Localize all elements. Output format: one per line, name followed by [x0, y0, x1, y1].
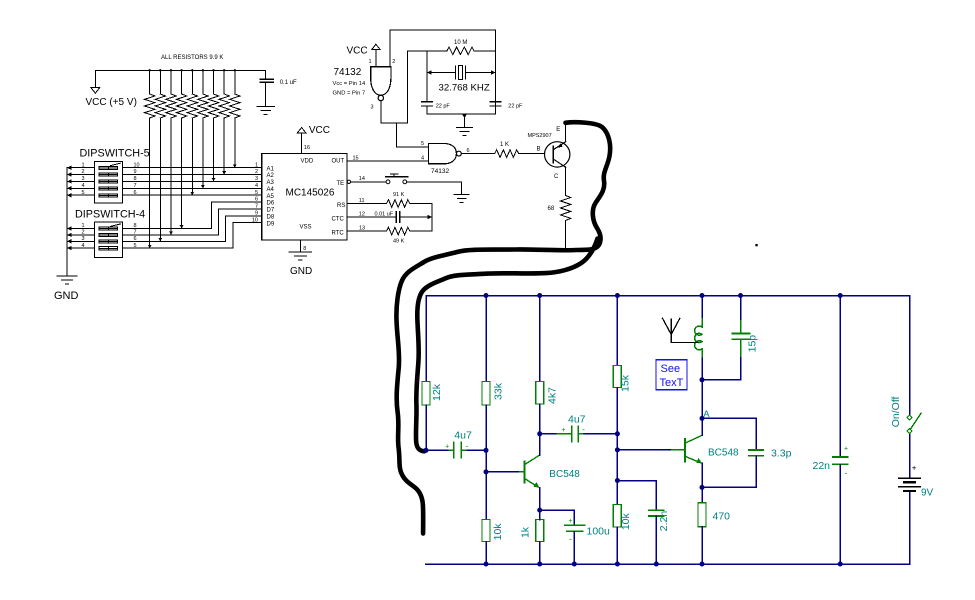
- wire DIP4 pin 6 to MC145026 D8: [122, 216, 261, 242]
- capacitor 2.2n: [617, 481, 656, 510]
- junction on data row for R9: [233, 164, 237, 167]
- svg-text:1: 1: [368, 59, 371, 65]
- wire RF V+ top rail: [426, 295, 910, 297]
- svg-text:3: 3: [81, 236, 84, 242]
- svg-text:9: 9: [255, 211, 258, 217]
- op-amp gate U2a 74132 NAND (oscillator): [371, 67, 391, 95]
- svg-text:470: 470: [713, 510, 731, 522]
- ground GND at MC145026 VSS pin 8: [299, 240, 301, 252]
- svg-text:4: 4: [81, 183, 84, 189]
- wire TE button to ground: [407, 182, 462, 195]
- wire gate1 pin2 feedback loop top: [390, 30, 496, 114]
- capacitor 4u7 interstage: [540, 433, 557, 435]
- ground under 0.1 uF: [257, 105, 274, 107]
- wire gate1 output to gate2 input 5: [381, 101, 408, 123]
- wire Q2 emitter: [701, 463, 703, 487]
- svg-text:DIPSWITCH-4: DIPSWITCH-4: [75, 209, 145, 221]
- svg-text:1k: 1k: [520, 526, 532, 538]
- junction on data row for R5: [190, 192, 194, 195]
- svg-text:10 M: 10 M: [454, 40, 467, 46]
- capacitor 22 pF left: [426, 51, 428, 102]
- svg-text:22 pF: 22 pF: [508, 103, 523, 109]
- svg-text:4k7: 4k7: [546, 387, 558, 404]
- wire oscillator node down to gates: [406, 51, 408, 123]
- svg-text:VCC (+5 V): VCC (+5 V): [86, 97, 137, 108]
- svg-text:5: 5: [255, 190, 258, 196]
- svg-text:RS: RS: [337, 203, 345, 209]
- wire RF right branch (battery): [909, 296, 911, 417]
- wire Q2 base: [617, 449, 671, 451]
- wire Q2 collector to node A: [701, 418, 703, 435]
- svg-text:TE: TE: [337, 181, 345, 187]
- svg-text:0.1 uF: 0.1 uF: [280, 80, 297, 86]
- wire DIP5 pin 3 to bus: [67, 180, 95, 182]
- capacitor 100u: [540, 510, 575, 524]
- svg-text:22 pF: 22 pF: [436, 103, 451, 109]
- wire DIP4 pin 4 to bus: [67, 247, 95, 249]
- svg-text:8: 8: [134, 176, 137, 182]
- node RF input junction: [424, 448, 429, 453]
- svg-text:2: 2: [81, 230, 84, 236]
- svg-text:32.768 KHZ: 32.768 KHZ: [439, 82, 490, 93]
- svg-text:3: 3: [81, 176, 84, 182]
- svg-text:GND = Pin 7: GND = Pin 7: [333, 91, 366, 97]
- svg-text:A1: A1: [267, 166, 275, 172]
- ground at crystal: [457, 126, 473, 128]
- svg-text:+: +: [561, 427, 565, 434]
- wire DIP5 pin 7 row A4 to MC145026: [122, 187, 261, 189]
- resistor R9 pull-up (9.9 K): [234, 70, 236, 94]
- svg-text:4: 4: [421, 155, 424, 161]
- svg-text:ALL RESISTORS 9.9 K: ALL RESISTORS 9.9 K: [161, 55, 223, 61]
- switch On/Off: [907, 415, 912, 420]
- capacitor 15p tank: [740, 296, 742, 321]
- svg-text:4u7: 4u7: [454, 429, 472, 441]
- svg-text:Vcc = Pin 14: Vcc = Pin 14: [333, 81, 366, 87]
- svg-text:4: 4: [81, 243, 84, 249]
- svg-text:D6: D6: [267, 201, 275, 207]
- svg-text:1: 1: [81, 223, 84, 229]
- svg-text:A3: A3: [267, 180, 275, 186]
- wire DIP5 pin 1 to bus: [67, 167, 95, 169]
- svg-text:22n: 22n: [813, 460, 831, 472]
- svg-text:12: 12: [359, 211, 365, 217]
- resistor 10k (second stage): [613, 505, 621, 528]
- svg-text:-: -: [582, 425, 585, 434]
- op-amp gate U2b 74132 NAND (buffer): [429, 144, 457, 164]
- svg-text:BC548: BC548: [549, 469, 580, 480]
- svg-text:TexT: TexT: [660, 377, 684, 389]
- svg-text:D8: D8: [267, 214, 275, 220]
- svg-text:91 K: 91 K: [393, 192, 405, 198]
- svg-text:100u: 100u: [587, 525, 611, 537]
- junction on data row for R3: [169, 232, 173, 235]
- svg-text:5: 5: [134, 243, 137, 249]
- junction on data row for R4: [180, 225, 184, 228]
- svg-text:3.3p: 3.3p: [771, 447, 792, 459]
- svg-text:2: 2: [81, 169, 84, 175]
- DIPSWITCH-5 element row 5: [99, 194, 117, 197]
- wire VCC supply rail: [95, 69, 265, 71]
- wire hand-drawn link inner sweep to RF input: [416, 239, 598, 452]
- junction on data row for R7: [212, 178, 216, 181]
- svg-text:3: 3: [255, 176, 258, 182]
- svg-text:2: 2: [255, 169, 258, 175]
- svg-text:33k: 33k: [493, 382, 505, 400]
- capacitor 22n: [839, 296, 841, 457]
- wire emitter up: [565, 123, 567, 142]
- svg-text:10k: 10k: [492, 523, 504, 541]
- svg-text:1 K: 1 K: [500, 142, 509, 148]
- wire collector down: [565, 167, 567, 195]
- resistor 470: [701, 487, 703, 502]
- wire OUT pin 15 to 74132 gate input 4: [347, 160, 428, 162]
- svg-text:10: 10: [252, 217, 258, 223]
- svg-text:6: 6: [134, 236, 137, 242]
- svg-text:49 K: 49 K: [393, 239, 405, 245]
- svg-text:CTC: CTC: [332, 216, 345, 222]
- wire hand-drawn link outer sweep: [396, 243, 599, 534]
- resistor R7 pull-up (9.9 K): [213, 70, 215, 94]
- svg-text:9: 9: [134, 169, 137, 175]
- svg-text:15: 15: [353, 155, 359, 161]
- wire DIP5 pin 9 row A2 to MC145026: [122, 174, 261, 176]
- svg-text:15k: 15k: [619, 374, 631, 392]
- resistor 1 K base: [461, 153, 494, 155]
- wire DIP5 pin 8 row A3 to MC145026: [122, 180, 261, 182]
- resistor 33k: [485, 296, 487, 382]
- svg-text:14: 14: [359, 176, 365, 182]
- resistor 1k: [536, 520, 544, 542]
- DIPSWITCH-5 element row 3: [99, 180, 117, 183]
- svg-text:3: 3: [370, 105, 373, 111]
- wire DIP5 pin 10 row A1 to MC145026: [122, 167, 261, 169]
- svg-text:VDD: VDD: [301, 159, 314, 165]
- power VCC at MC145026 VDD pin 16: [301, 133, 303, 154]
- resistor R4 pull-up (9.9 K): [181, 70, 183, 94]
- wire DIP4 pin 7 to MC145026 D7: [122, 209, 261, 235]
- svg-text:9V: 9V: [921, 488, 934, 499]
- resistor R3 pull-up (9.9 K): [170, 70, 172, 94]
- svg-text:7: 7: [134, 230, 137, 236]
- wire DIP4 pin 1 to bus: [67, 228, 95, 230]
- wire DIP5 pin 4 to bus: [67, 187, 95, 189]
- svg-text:16: 16: [304, 145, 310, 151]
- svg-text:VCC: VCC: [347, 45, 368, 56]
- svg-text:5: 5: [421, 141, 424, 147]
- svg-text:-: -: [845, 468, 848, 477]
- svg-text:15p: 15p: [747, 335, 759, 353]
- svg-text:DIPSWITCH-5: DIPSWITCH-5: [80, 148, 150, 160]
- junction on data row for R8: [222, 171, 226, 174]
- wire DIP5 pin 5 to bus: [67, 194, 95, 196]
- wire DIP4 pin 3 to bus: [67, 240, 95, 242]
- capacitor 3.3p feedback: [702, 418, 756, 449]
- svg-text:D7: D7: [267, 208, 275, 214]
- capacitor 0.1 uF bypass: [265, 70, 267, 79]
- junction on data row for R2: [158, 238, 162, 241]
- svg-text:1: 1: [81, 162, 84, 168]
- resistor R1 pull-up (9.9 K): [149, 70, 151, 94]
- label See TexT box: [656, 360, 687, 390]
- svg-text:6: 6: [134, 190, 137, 196]
- wire hand-drawn link from Q1 emitter (top): [566, 122, 611, 243]
- svg-text:See: See: [661, 363, 681, 375]
- svg-text:1: 1: [255, 162, 258, 168]
- svg-text:10: 10: [134, 162, 140, 168]
- svg-text:2.2n: 2.2n: [658, 511, 670, 532]
- svg-text:2: 2: [392, 59, 395, 65]
- resistor R8 pull-up (9.9 K): [223, 70, 225, 94]
- wire RF ground bottom rail: [426, 563, 910, 565]
- wire DIP5 pin 2 to bus: [67, 174, 95, 176]
- svg-text:7: 7: [134, 183, 137, 189]
- svg-text:D9: D9: [267, 221, 275, 227]
- stray ink dot: [755, 244, 757, 246]
- svg-text:8: 8: [134, 223, 137, 229]
- crystal 32.768 KHZ: [427, 72, 455, 74]
- capacitor 0.01 uF on CTC pin 12: [347, 216, 396, 218]
- svg-text:+: +: [568, 518, 572, 525]
- DIPSWITCH-4 element row 4: [99, 247, 117, 250]
- svg-text:5: 5: [81, 190, 84, 196]
- svg-text:+: +: [912, 464, 917, 473]
- node A: [700, 416, 705, 421]
- svg-text:12k: 12k: [431, 383, 443, 401]
- DIPSWITCH-4 element row 1: [99, 227, 117, 230]
- transistor Q2 BC548: [684, 439, 686, 461]
- junction on data row for R6: [201, 185, 205, 188]
- wire DIP4 pin 8 to MC145026 D6: [122, 202, 261, 229]
- junction on data row for R1: [148, 245, 152, 248]
- wire Q1 emitter: [539, 488, 541, 511]
- svg-text:4: 4: [255, 183, 258, 189]
- svg-text:A2: A2: [267, 173, 275, 179]
- svg-text:VCC: VCC: [309, 125, 330, 136]
- pushbutton switch on TE: [386, 180, 390, 184]
- svg-text:4u7: 4u7: [568, 414, 586, 426]
- resistor R2 pull-up (9.9 K): [159, 70, 161, 94]
- resistor 12k: [425, 296, 427, 382]
- svg-text:11: 11: [359, 198, 365, 204]
- svg-text:VSS: VSS: [300, 225, 312, 231]
- svg-text:MC145026: MC145026: [286, 187, 335, 198]
- svg-text:74132: 74132: [334, 67, 362, 78]
- IC U1 MC145026: [262, 154, 347, 241]
- ground at TE button: [454, 193, 469, 195]
- svg-text:A4: A4: [267, 187, 275, 193]
- svg-text:13: 13: [359, 225, 365, 231]
- DIPSWITCH-4 element row 3: [99, 240, 117, 243]
- resistor 10k (first stage): [482, 520, 490, 542]
- svg-text:8: 8: [303, 246, 306, 252]
- power VCC (+5 V) symbol: [94, 70, 96, 87]
- svg-text:10k: 10k: [620, 512, 632, 530]
- capacitor 4u7 input: [426, 449, 449, 451]
- resistor 4k7: [539, 296, 541, 382]
- transistor Q1 BC548: [523, 461, 525, 482]
- wire Q1 base: [486, 471, 520, 473]
- MC145026 TE pin 14 bubble: [347, 180, 350, 183]
- svg-text:+: +: [844, 445, 848, 452]
- svg-text:0.01 uF: 0.01 uF: [375, 212, 394, 218]
- svg-text:C: C: [554, 174, 559, 180]
- resistor R6 pull-up (9.9 K): [202, 70, 204, 94]
- wire RC network right side: [431, 204, 433, 232]
- svg-text:GND: GND: [54, 290, 79, 302]
- svg-text:E: E: [556, 127, 560, 133]
- svg-text:A5: A5: [267, 194, 275, 200]
- svg-text:MPS2907: MPS2907: [528, 133, 552, 139]
- svg-text:74132: 74132: [431, 168, 449, 175]
- resistor 49 K on RTC pin 13: [347, 230, 386, 232]
- svg-text:-: -: [465, 441, 468, 450]
- svg-text:BC548: BC548: [708, 447, 739, 458]
- wire node A up to tank: [701, 380, 703, 419]
- svg-text:-: -: [569, 535, 572, 544]
- svg-text:OUT: OUT: [332, 159, 345, 165]
- svg-text:GND: GND: [290, 266, 312, 277]
- DIPSWITCH-4 element row 2: [99, 234, 117, 237]
- wire oscillator bottom to ground: [427, 113, 496, 115]
- capacitor 22 pF right: [490, 101, 501, 103]
- wire DIP4 pin 5 to MC145026 D9: [122, 223, 261, 248]
- svg-text:+: +: [445, 443, 449, 450]
- wire ground bus left: [66, 168, 68, 276]
- svg-text:68: 68: [548, 206, 555, 212]
- inductor L1 tank coil: [701, 296, 703, 319]
- svg-text:6: 6: [255, 197, 258, 203]
- resistor 91 K on RS pin 11: [347, 203, 386, 205]
- svg-text:7: 7: [255, 204, 258, 210]
- DIPSWITCH-5 element row 2: [99, 173, 117, 176]
- wire DIP5 pin 6 row A5 to MC145026: [122, 194, 261, 196]
- svg-text:RTC: RTC: [332, 230, 345, 236]
- DIPSWITCH-5 element row 4: [99, 187, 117, 190]
- ground GND bottom left: [57, 275, 77, 277]
- svg-text:B: B: [537, 147, 541, 153]
- resistor 15k: [616, 296, 618, 366]
- wire DIP4 pin 2 to bus: [67, 234, 95, 236]
- DIPSWITCH-5 element row 1: [99, 166, 117, 169]
- resistor R5 pull-up (9.9 K): [191, 70, 193, 94]
- antenna: [663, 318, 672, 334]
- svg-text:On/Off: On/Off: [890, 396, 902, 427]
